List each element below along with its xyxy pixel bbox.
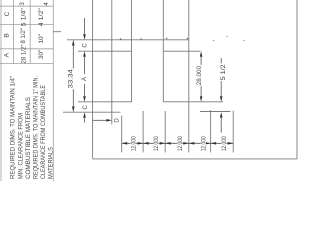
svg-text:MIN. CLEARANCE FROM: MIN. CLEARANCE FROM: [17, 113, 24, 179]
svg-text:12.000: 12.000: [154, 136, 160, 152]
svg-text:33.34: 33.34: [68, 68, 74, 88]
svg-text:4 1/4": 4 1/4": [43, 0, 50, 6]
svg-text:4 1/2": 4 1/2": [38, 7, 45, 26]
svg-text:8 1/2": 8 1/2": [20, 27, 27, 43]
svg-text:C: C: [83, 43, 89, 48]
svg-text:B: B: [4, 33, 11, 37]
svg-text:C: C: [83, 104, 89, 109]
svg-text:C: C: [4, 11, 11, 16]
svg-text:COMBUSTIBLE MATERIALS: COMBUSTIBLE MATERIALS: [25, 97, 32, 179]
svg-text:REQUIRED DIMS. TO MAINTAIN 1": REQUIRED DIMS. TO MAINTAIN 1" MIN.: [33, 76, 40, 179]
svg-text:REQUIRED DIMS. TO MAINTAIN 1/4: REQUIRED DIMS. TO MAINTAIN 1/4": [10, 76, 17, 179]
svg-text:12.000: 12.000: [131, 136, 137, 152]
svg-text:28 1/2": 28 1/2": [20, 44, 27, 64]
svg-text:CLEARANCE FROM COMBUSTABLE: CLEARANCE FROM COMBUSTABLE: [40, 85, 47, 179]
svg-text:A: A: [4, 52, 11, 57]
svg-text:28.000: 28.000: [197, 65, 203, 85]
svg-text:30": 30": [38, 49, 45, 59]
svg-text:3 1/4": 3 1/4": [19, 0, 26, 6]
svg-text:D: D: [114, 118, 120, 123]
svg-text:MATERIALS: MATERIALS: [48, 147, 55, 179]
svg-text:12.000: 12.000: [202, 136, 208, 152]
svg-text:12.000: 12.000: [222, 136, 228, 152]
svg-text:5 1/2: 5 1/2: [221, 64, 227, 81]
svg-text:5 1/4": 5 1/4": [20, 7, 27, 26]
svg-text:10": 10": [38, 33, 45, 43]
svg-text:A: A: [82, 77, 88, 81]
svg-text:12.000: 12.000: [178, 136, 184, 152]
